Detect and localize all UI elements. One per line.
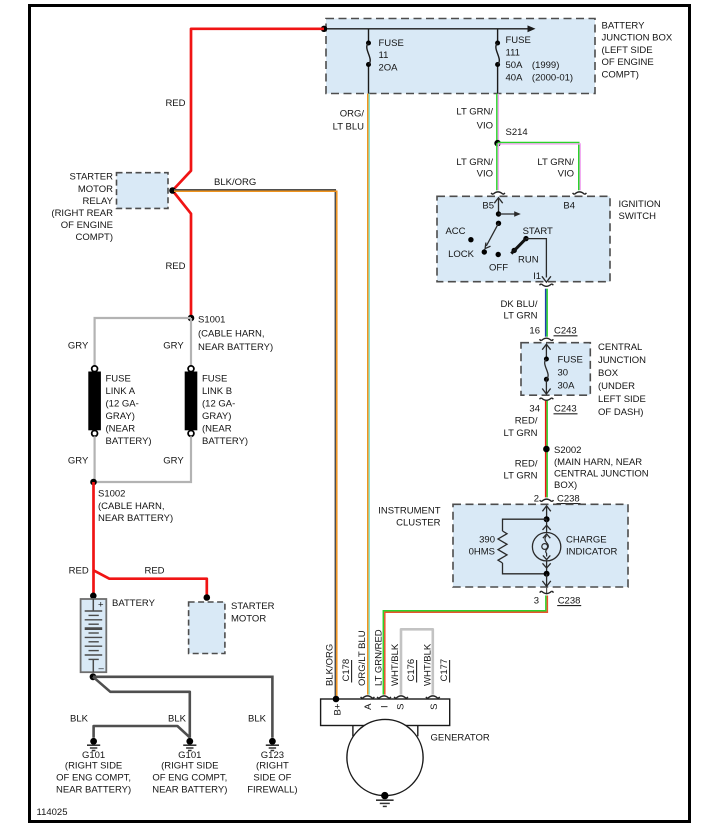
svg-text:G123: G123 (261, 750, 284, 761)
wire BLK/ORG relay to generator B+ (174, 190, 337, 698)
svg-text:0HMS: 0HMS (469, 546, 495, 557)
splice S214 (494, 127, 527, 147)
svg-text:390: 390 (479, 534, 495, 545)
svg-text:3: 3 (534, 595, 539, 606)
lamp output arrow (543, 561, 551, 574)
svg-text:INDICATOR: INDICATOR (566, 546, 618, 557)
node bottom of lamp circuit (544, 571, 550, 577)
svg-text:STARTER: STARTER (70, 171, 114, 182)
svg-text:CENTRAL JUNCTION: CENTRAL JUNCTION (554, 469, 649, 480)
svg-text:OF ENG COMPT,: OF ENG COMPT, (152, 772, 227, 783)
connector arc I1 (540, 284, 554, 286)
svg-text:–: – (99, 663, 105, 674)
fuse link B (185, 366, 248, 447)
svg-text:BATTERY): BATTERY) (106, 436, 152, 447)
svg-text:111: 111 (506, 48, 520, 59)
node at bus entry (321, 26, 327, 32)
svg-text:30A: 30A (558, 381, 576, 392)
node generator B+ terminal (333, 696, 340, 703)
node at relay terminal (169, 187, 176, 194)
svg-text:LINK A: LINK A (106, 386, 136, 397)
wire GRY S1001 to fuse link A (95, 318, 191, 366)
wire ORG/LT BLU fuse 11 to generator A (368, 94, 370, 695)
svg-text:BATTERY: BATTERY (112, 598, 156, 609)
svg-text:S214: S214 (506, 127, 528, 138)
svg-text:C243: C243 (554, 403, 577, 414)
svg-text:S1002: S1002 (98, 489, 125, 500)
connector arc B4 (573, 192, 587, 194)
battery junction box (326, 19, 673, 94)
svg-text:ORG/LT BLU: ORG/LT BLU (357, 630, 368, 686)
svg-text:VIO: VIO (558, 168, 574, 179)
svg-text:GRY: GRY (68, 340, 89, 351)
svg-text:G101: G101 (178, 750, 201, 761)
svg-text:(RIGHT REAR: (RIGHT REAR (51, 208, 113, 219)
svg-text:GRY: GRY (163, 455, 184, 466)
ground G101 first (56, 738, 131, 795)
svg-text:BLK: BLK (168, 713, 187, 724)
pin B5 (482, 198, 502, 214)
svg-text:LT GRN: LT GRN (504, 470, 538, 481)
connector label C178 (341, 659, 352, 683)
svg-text:RED/: RED/ (515, 415, 538, 426)
fuse link A (88, 366, 151, 447)
svg-text:MOTOR: MOTOR (78, 184, 113, 195)
starter motor (189, 601, 275, 654)
fuse 11 (366, 29, 404, 94)
svg-text:LOCK: LOCK (448, 249, 475, 260)
wire GRY fuse link A to S1002 (93, 436, 95, 482)
pin 2 connector C238 (534, 493, 581, 504)
pin 34 connector C243 (529, 398, 577, 414)
svg-text:GRAY): GRAY) (202, 411, 231, 422)
svg-text:B+: B+ (333, 703, 344, 715)
battery (81, 598, 156, 674)
svg-text:B4: B4 (563, 200, 575, 211)
label RED/ LT GRN upper (504, 415, 538, 439)
generator (321, 699, 490, 796)
wire BLK G101 second to G101 first (94, 726, 190, 738)
svg-text:11: 11 (379, 50, 389, 61)
contact START (523, 226, 553, 241)
connector arc generator A (361, 696, 375, 698)
svg-text:NEAR BATTERY): NEAR BATTERY) (198, 342, 273, 353)
svg-text:JUNCTION BOX: JUNCTION BOX (602, 33, 673, 44)
instrument cluster (378, 504, 628, 587)
resistor 390 0HMS (469, 519, 547, 574)
svg-text:S: S (429, 704, 440, 710)
switch pivot node (496, 221, 501, 226)
contact bridge RUN-START (511, 239, 526, 254)
svg-text:CLUSTER: CLUSTER (396, 518, 440, 529)
svg-text:BLK: BLK (70, 713, 89, 724)
svg-text:ORG/: ORG/ (340, 108, 365, 119)
svg-text:BATTERY: BATTERY (602, 21, 646, 32)
svg-text:BLK/ORG: BLK/ORG (325, 644, 336, 686)
svg-text:OF ENG COMPT,: OF ENG COMPT, (56, 772, 131, 783)
splice S1002 (90, 479, 173, 524)
svg-text:I1: I1 (533, 271, 541, 282)
svg-text:LEFT SIDE: LEFT SIDE (598, 394, 646, 405)
ground G123 (247, 738, 297, 795)
ground G101 second (152, 738, 227, 795)
svg-text:GRY: GRY (68, 455, 89, 466)
svg-text:16: 16 (529, 325, 540, 336)
svg-text:B5: B5 (482, 200, 494, 211)
wire START to I1 (526, 239, 551, 283)
svg-text:BATTERY): BATTERY) (202, 436, 248, 447)
wiper arm toward LOCK (485, 223, 498, 248)
contact RUN (512, 248, 539, 266)
node starter motor terminal (204, 594, 211, 601)
svg-text:FUSE: FUSE (202, 373, 227, 384)
svg-text:VIO: VIO (477, 120, 493, 131)
svg-text:FIREWALL): FIREWALL) (247, 784, 297, 795)
cluster exit arrow (542, 574, 550, 587)
svg-text:MOTOR: MOTOR (231, 613, 266, 624)
wire LT GRN/VIO S214 to B4 (498, 142, 581, 190)
label LT GRN/ VIO right branch (537, 157, 574, 180)
connector label C176 (406, 659, 417, 683)
svg-text:BLK/ORG: BLK/ORG (214, 177, 256, 188)
svg-text:I: I (380, 705, 391, 708)
svg-text:RUN: RUN (518, 254, 539, 265)
svg-text:SWITCH: SWITCH (619, 211, 657, 222)
svg-text:LINK B: LINK B (202, 386, 232, 397)
wire RED/LT GRN upper (546, 401, 548, 498)
svg-text:COMPT): COMPT) (602, 69, 639, 80)
svg-text:(CABLE HARN,: (CABLE HARN, (198, 329, 265, 340)
label LT GRN/ VIO upper (456, 106, 493, 131)
svg-text:S2002: S2002 (554, 445, 581, 456)
svg-text:LT GRN: LT GRN (504, 428, 538, 439)
pin 16 connector C243 (529, 325, 577, 340)
svg-text:A: A (363, 703, 374, 710)
svg-text:WHT/BLK: WHT/BLK (423, 643, 434, 686)
svg-text:40A (2000-01): 40A (2000-01) (506, 72, 574, 83)
svg-text:RED: RED (165, 98, 185, 109)
fuse 111 (495, 29, 573, 94)
svg-text:WHT/BLK: WHT/BLK (390, 643, 401, 686)
wire DK BLU/LT GRN (546, 289, 548, 337)
connector arc generator S second (426, 696, 440, 698)
svg-text:BOX: BOX (598, 368, 619, 379)
svg-text:+: + (98, 600, 104, 611)
svg-text:GRY: GRY (163, 340, 184, 351)
svg-text:C178: C178 (341, 659, 352, 682)
connector arc generator S first (394, 696, 408, 698)
svg-text:C176: C176 (406, 659, 417, 682)
svg-text:GRAY): GRAY) (106, 411, 135, 422)
svg-text:NEAR BATTERY): NEAR BATTERY) (56, 784, 131, 795)
svg-text:50A (1999): 50A (1999) (506, 60, 560, 71)
svg-text:LT GRN/: LT GRN/ (456, 106, 493, 117)
svg-text:IGNITION: IGNITION (619, 199, 661, 210)
svg-text:CHARGE: CHARGE (566, 534, 607, 545)
wire bus inside battery junction box (324, 25, 536, 32)
central junction box (521, 342, 646, 418)
cluster feed arrow (542, 506, 550, 519)
svg-text:(12 GA-: (12 GA- (202, 398, 235, 409)
svg-text:G101: G101 (82, 750, 105, 761)
wire WHT/BLK jumper S to S (401, 629, 433, 694)
splice S2002 (543, 445, 649, 491)
label DK BLU/ LT GRN (501, 299, 538, 322)
wire BLK battery to G123 (93, 677, 272, 738)
svg-text:S1001: S1001 (198, 314, 225, 325)
svg-text:INSTRUMENT: INSTRUMENT (378, 506, 440, 517)
svg-text:FUSE: FUSE (506, 35, 531, 46)
wire LT GRN/VIO S214 to B5 (497, 143, 499, 190)
svg-text:(NEAR: (NEAR (202, 423, 232, 434)
fuse 30 (542, 344, 583, 394)
svg-text:ACC: ACC (445, 226, 465, 237)
svg-text:C238: C238 (558, 595, 581, 606)
wire GRY S1001 to fuse link B (190, 318, 192, 366)
svg-text:STARTER: STARTER (231, 601, 275, 612)
svg-text:(MAIN HARN, NEAR: (MAIN HARN, NEAR (554, 457, 642, 468)
svg-text:2: 2 (534, 494, 539, 505)
splice S1001 (188, 314, 273, 353)
contact LOCK (448, 249, 487, 260)
connector label C177 (439, 659, 450, 683)
label RED/ LT GRN lower (504, 458, 538, 481)
svg-text:BLK: BLK (248, 713, 267, 724)
svg-text:LT GRN: LT GRN (504, 311, 538, 322)
wiper feed arrow (499, 211, 521, 216)
svg-text:OF ENGINE: OF ENGINE (602, 57, 654, 68)
svg-text:2OA: 2OA (379, 63, 399, 74)
svg-text:(RIGHT: (RIGHT (256, 761, 289, 772)
svg-text:S: S (396, 704, 407, 710)
svg-text:FUSE: FUSE (379, 38, 404, 49)
svg-text:NEAR BATTERY): NEAR BATTERY) (98, 513, 173, 524)
node top of lamp circuit (544, 516, 550, 522)
generator case ground (376, 792, 394, 807)
svg-text:LT GRN/: LT GRN/ (456, 157, 493, 168)
contact ACC (445, 226, 473, 242)
svg-text:LT GRN/RED: LT GRN/RED (374, 629, 385, 686)
svg-text:(LEFT SIDE: (LEFT SIDE (602, 45, 653, 56)
label ORG/ LT BLU (333, 108, 365, 132)
connector arc generator I (377, 696, 391, 698)
svg-text:OF DASH): OF DASH) (598, 407, 643, 418)
svg-text:LT BLU: LT BLU (333, 121, 364, 132)
wire RED top run (173, 29, 325, 318)
svg-text:(RIGHT SIDE: (RIGHT SIDE (65, 761, 122, 772)
charge indicator lamp (532, 519, 617, 561)
svg-text:(12 GA-: (12 GA- (106, 398, 139, 409)
wire LT GRN/VIO fuse 111 to S214 (497, 94, 499, 143)
svg-text:RED: RED (144, 565, 164, 576)
svg-text:C177: C177 (439, 659, 450, 682)
svg-text:OF ENGINE: OF ENGINE (61, 220, 113, 231)
connector arc B5 (491, 192, 505, 194)
svg-text:C243: C243 (554, 325, 577, 336)
svg-text:34: 34 (529, 403, 540, 414)
wire LT GRN/RED cluster to generator I (383, 596, 547, 695)
label LT GRN/ VIO left branch (456, 157, 493, 180)
svg-text:START: START (523, 226, 553, 237)
svg-text:30: 30 (558, 368, 569, 379)
starter motor relay (51, 171, 168, 243)
svg-text:SIDE OF: SIDE OF (253, 772, 291, 783)
svg-text:CENTRAL: CENTRAL (598, 342, 642, 353)
wire RED S1002 to battery (92, 482, 95, 596)
svg-text:(NEAR: (NEAR (106, 423, 136, 434)
wire RED branch to starter motor (94, 570, 207, 597)
svg-text:(CABLE HARN,: (CABLE HARN, (98, 501, 165, 512)
svg-text:(UNDER: (UNDER (598, 381, 635, 392)
svg-text:(RIGHT SIDE: (RIGHT SIDE (161, 761, 218, 772)
node battery negative (90, 673, 97, 680)
ignition switch (437, 196, 661, 281)
svg-text:BOX): BOX) (554, 480, 577, 491)
node battery positive (90, 593, 97, 600)
svg-text:COMPT): COMPT) (76, 232, 113, 243)
svg-text:OFF: OFF (489, 262, 508, 273)
svg-text:VIO: VIO (477, 168, 493, 179)
wire BLK battery to G101 second (93, 677, 190, 738)
svg-text:FUSE: FUSE (558, 355, 583, 366)
svg-text:RED: RED (165, 261, 185, 272)
svg-text:RELAY: RELAY (83, 196, 114, 207)
svg-text:DK BLU/: DK BLU/ (501, 299, 538, 310)
svg-text:RED/: RED/ (515, 458, 538, 469)
svg-text:114025: 114025 (37, 807, 68, 818)
pin 3 connector C238 (534, 587, 581, 606)
contact OFF (489, 252, 508, 274)
wire GRY fuse link B to S1002 (94, 436, 192, 482)
svg-text:JUNCTION: JUNCTION (598, 355, 646, 366)
svg-text:FUSE: FUSE (106, 373, 131, 384)
svg-text:C238: C238 (557, 493, 580, 504)
svg-text:GENERATOR: GENERATOR (431, 733, 490, 744)
switch wiper node (496, 211, 501, 216)
svg-text:NEAR BATTERY): NEAR BATTERY) (152, 784, 227, 795)
svg-text:RED: RED (69, 565, 89, 576)
svg-text:LT GRN/: LT GRN/ (537, 157, 574, 168)
